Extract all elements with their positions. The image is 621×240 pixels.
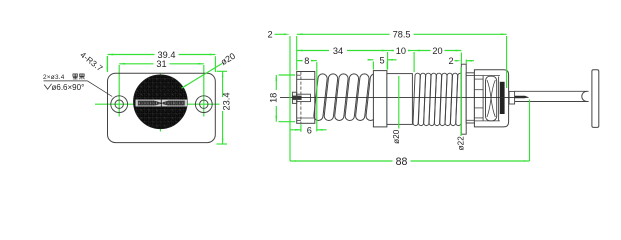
capsule right wall — [498, 77, 500, 121]
housing left stack lines — [474, 78, 483, 80]
ext line x=296.7 top — [296, 36, 298, 71]
svg-text:6: 6 — [307, 126, 312, 136]
inner pin (dark) — [515, 96, 528, 99]
dimension 5 (collar) — [372, 62, 374, 70]
inner capsule slider — [486, 76, 497, 121]
screw shank box — [297, 94, 311, 101]
flange lip lines — [297, 74, 301, 76]
svg-text:ø22: ø22 — [456, 136, 465, 151]
ext line x=290 (88 & 2 left) — [289, 36, 291, 161]
collar disc — [373, 71, 387, 127]
leader 4-R3.7 corner radius — [106, 56, 108, 71]
shaft collar nut — [509, 91, 514, 104]
housing body — [474, 70, 508, 127]
svg-text:78.5: 78.5 — [393, 30, 411, 40]
middle cylinder phi20 — [387, 74, 413, 125]
svg-text:ø6.6×90°: ø6.6×90° — [52, 83, 85, 92]
housing neck cylinder — [466, 73, 474, 123]
flange body side view — [297, 72, 315, 124]
center slot bar — [136, 99, 188, 107]
centerline vertical left hole — [118, 65, 120, 117]
leader phi20 center circle — [182, 64, 223, 89]
dimension 34 — [387, 52, 389, 70]
flange hidden line (dashed) — [300, 72, 302, 124]
spring 1 (large coil) — [314, 74, 327, 121]
svg-text:34: 34 — [333, 46, 343, 56]
svg-text:ø20: ø20 — [392, 129, 401, 144]
dimension 6 — [300, 124, 302, 132]
dimension 10 — [413, 52, 415, 72]
svg-text:5: 5 — [379, 55, 384, 65]
label phi22 — [460, 67, 462, 136]
axis centerline — [280, 96, 529, 98]
svg-text:31: 31 — [156, 59, 166, 69]
flange inner step lines — [297, 78, 315, 80]
dark band in housing — [500, 82, 505, 114]
svg-text:ø20: ø20 — [219, 51, 237, 67]
dimension 8 — [316, 62, 318, 132]
label countersink 6.6x90 — [44, 84, 51, 89]
label phi20 — [398, 76, 400, 129]
svg-text:2: 2 — [267, 30, 272, 40]
mounting hole left counterbore — [111, 96, 128, 113]
svg-text:8: 8 — [304, 56, 309, 66]
svg-text:18: 18 — [269, 93, 279, 103]
svg-text:2: 2 — [448, 56, 453, 66]
dimension 88 — [529, 100, 531, 162]
washer phi22 — [461, 64, 466, 134]
dimension 20 — [460, 53, 462, 65]
mounting hole right counterbore — [195, 96, 212, 113]
mounting hole right bore — [200, 100, 208, 108]
leader line to left hole — [88, 81, 113, 97]
dimension 78.5 — [506, 36, 508, 88]
centerline vertical right hole — [203, 65, 205, 117]
inner piston wall — [482, 76, 484, 121]
shaft sleeve — [515, 90, 589, 92]
screw pin head — [292, 92, 296, 103]
svg-text:10: 10 — [396, 46, 406, 56]
dimension 18 — [279, 74, 296, 76]
centerline vertical center circle — [159, 74, 161, 132]
dimension 31 — [119, 63, 153, 65]
svg-text:88: 88 — [396, 156, 408, 168]
svg-text:4-R3.7: 4-R3.7 — [78, 50, 104, 73]
centerline horizontal left view — [95, 103, 220, 105]
screw slot dark bar — [293, 96, 302, 100]
ball end arc — [582, 91, 587, 101]
housing inner shell lines — [474, 75, 500, 77]
mounting hole left bore — [115, 100, 123, 108]
svg-text:2×ø3.4: 2×ø3.4 — [43, 74, 65, 81]
dimension 39.4 — [107, 56, 109, 72]
flange plate rounded rectangle — [108, 73, 216, 142]
dimension 23.4 — [217, 70, 228, 72]
spring 2 (fine coil) — [413, 73, 420, 125]
T-bar handle — [592, 70, 599, 128]
svg-text:20: 20 — [432, 46, 442, 56]
svg-text:23.4: 23.4 — [221, 93, 231, 111]
